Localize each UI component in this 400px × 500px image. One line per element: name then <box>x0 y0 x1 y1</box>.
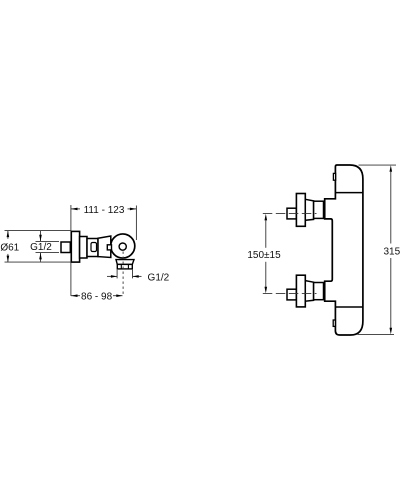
top union nut <box>314 201 324 218</box>
svg-text:111 - 123: 111 - 123 <box>84 205 125 216</box>
dim 150 bottom arrowhead <box>265 287 268 294</box>
outlet G1/2 left segment <box>107 275 117 277</box>
dim 86-98 right segment <box>113 295 123 297</box>
dia61 extension line bottom <box>5 261 72 263</box>
thread line left <box>120 264 122 269</box>
clip window <box>91 243 97 252</box>
supply pipe thin outline bottom <box>36 252 60 254</box>
dia61 top arrowhead <box>7 231 10 238</box>
dim 315 top extension <box>359 164 397 166</box>
top escutcheon <box>296 194 305 227</box>
dia61 bottom arrow stem <box>7 254 9 262</box>
bottom clip notch <box>333 320 335 326</box>
union nut <box>87 239 98 257</box>
step piece <box>80 237 87 259</box>
G1/2 inlet top arrow stem <box>40 231 42 241</box>
dim 111-123 right extension line <box>135 206 137 241</box>
dia61 bottom arrowhead <box>7 256 10 263</box>
dim 86-98 left segment <box>71 295 80 297</box>
bottom union nut <box>314 283 324 300</box>
top clip notch <box>333 173 335 180</box>
svg-text:Ø61: Ø61 <box>0 242 19 253</box>
dim 315 line top segment <box>390 171 392 243</box>
G1/2 inlet bottom arrow stem <box>40 253 42 262</box>
dia61 top arrow stem <box>7 231 9 239</box>
svg-text:G1/2: G1/2 <box>30 242 52 253</box>
pipe stub <box>61 242 70 253</box>
G1/2 inlet top arrowhead <box>39 235 42 242</box>
bottom inlet centerline dashed <box>263 293 317 295</box>
top cap seam <box>335 192 363 194</box>
outlet G1/2 extension line right <box>132 270 134 279</box>
svg-text:315: 315 <box>384 246 400 257</box>
svg-text:150±15: 150±15 <box>247 250 281 261</box>
svg-text:86 - 98: 86 - 98 <box>81 291 113 302</box>
bottom cap seam <box>335 306 363 308</box>
bottom cone <box>305 281 313 302</box>
dim 111-123 left arrowhead <box>71 208 78 211</box>
dim 315 bottom arrowhead <box>390 328 393 335</box>
dim 315 line bottom segment <box>390 258 392 329</box>
svg-text:G1/2: G1/2 <box>148 273 170 284</box>
top inlet pipe stub <box>287 208 296 219</box>
outlet G1/2 right segment <box>133 275 142 277</box>
outlet G1/2 left arrowhead <box>111 275 117 278</box>
bottom escutcheon <box>296 275 305 307</box>
G1/2 inlet bottom arrowhead <box>39 253 42 260</box>
thread line right <box>127 264 129 269</box>
knob circle <box>111 234 135 258</box>
top cone <box>305 199 313 220</box>
outlet skirt <box>116 260 134 265</box>
supply pipe thin outline top <box>36 240 60 242</box>
dim 111-123 right arrowhead <box>130 208 137 211</box>
dim 150 bottom segment <box>265 262 267 288</box>
temperature tab <box>107 245 111 250</box>
outlet thread box <box>117 264 132 269</box>
escutcheon <box>71 231 79 262</box>
bottom inlet pipe stub <box>287 289 296 300</box>
dim 86-98 right arrowhead <box>116 294 122 297</box>
outlet G1/2 extension line left <box>116 270 118 279</box>
top inlet centerline dashed <box>263 213 317 215</box>
dim 150 top arrowhead <box>265 214 268 221</box>
dim 315 top arrowhead <box>390 165 393 172</box>
dim 111-123 left segment <box>71 208 80 210</box>
knob inner circle <box>119 243 126 250</box>
outlet centerline dashed <box>122 252 124 296</box>
wall extension line <box>70 205 72 296</box>
dim 86-98 left arrowhead <box>71 294 78 297</box>
taper connector <box>98 236 111 258</box>
body outline <box>325 165 363 335</box>
dim 315 bottom extension <box>358 334 395 336</box>
dia61 extension line top <box>5 230 72 232</box>
dim 150 top segment <box>265 220 267 248</box>
outlet G1/2 right arrowhead <box>133 275 139 278</box>
dim 111-123 right segment <box>128 208 137 210</box>
